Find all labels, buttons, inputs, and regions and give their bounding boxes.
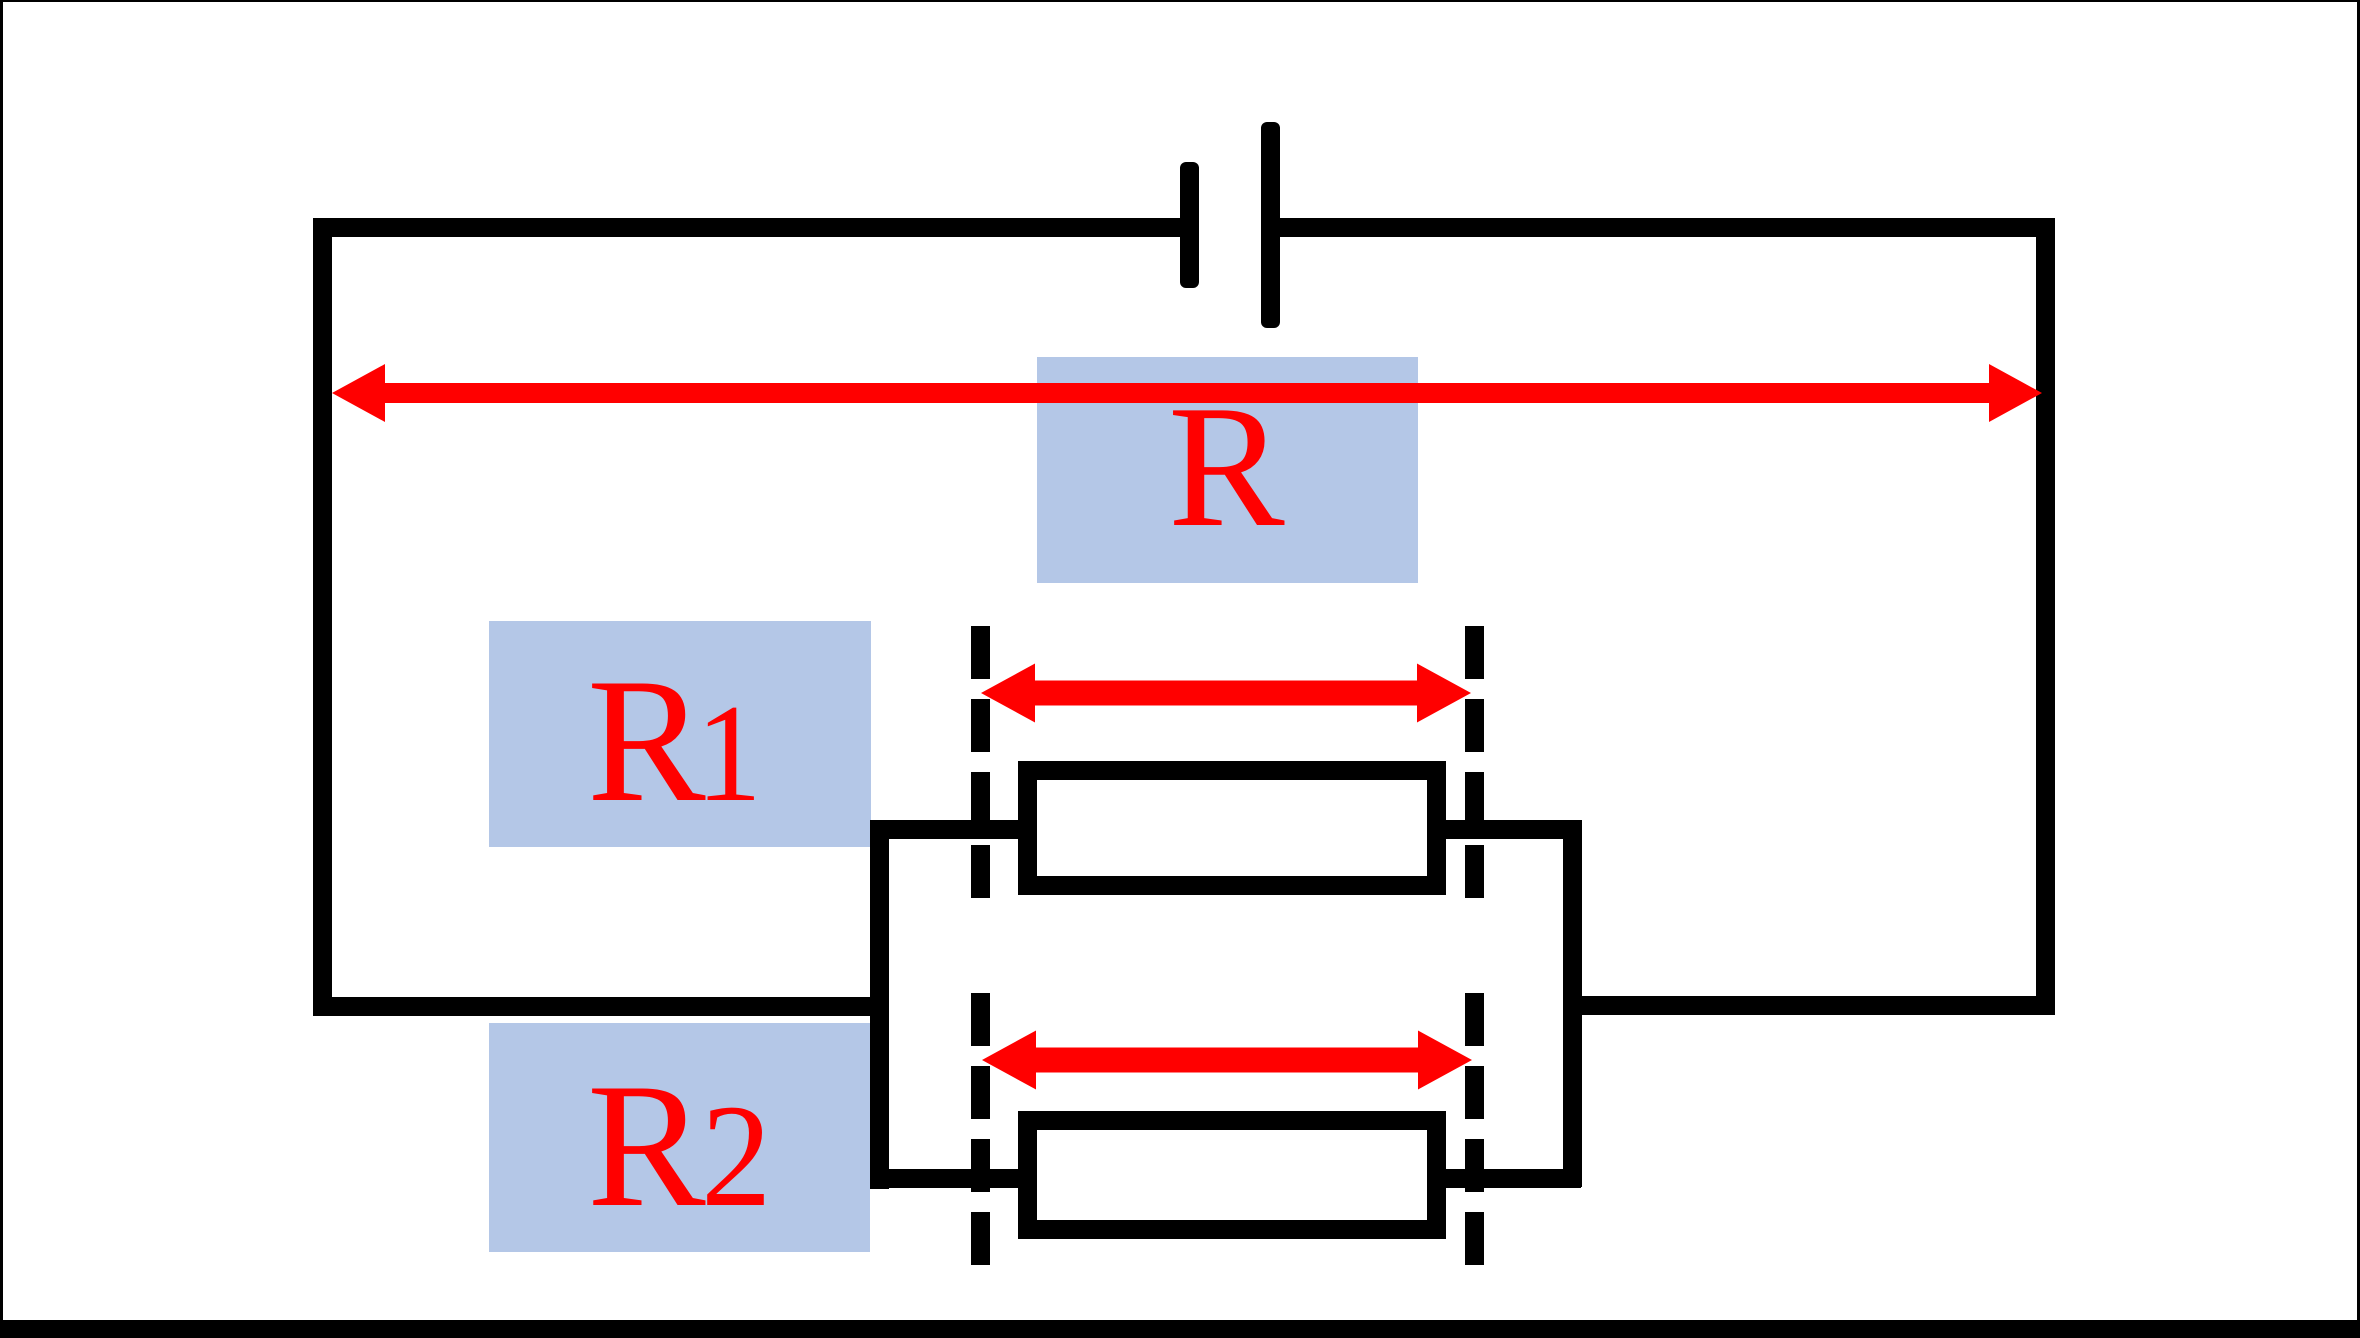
svg-text:R: R [587,641,706,839]
wire: R2 left lead [871,1169,1030,1188]
red arrow R1 [981,664,1471,723]
label box R [1037,357,1418,583]
frame: bottom band [0,1320,2360,1338]
wire: left junction bar [870,820,889,1189]
frame: left border [0,0,3,1338]
wire: R1 left lead [871,820,1030,839]
svg-text:1: 1 [696,676,762,831]
wire: bottom-right horizontal [1564,996,2055,1015]
label box R1 [489,621,871,847]
wire: top-right segment [1280,218,2055,237]
wire: bottom-left horizontal [313,997,888,1016]
svg-text:2: 2 [701,1075,772,1237]
wire: right vertical [2036,218,2055,1015]
battery long plate (positive) [1261,122,1280,328]
wire: right junction bar [1563,820,1582,1187]
wire: top-left segment [313,218,1180,237]
red arrow R (full width) [332,364,2042,422]
label box R2 [489,1023,870,1252]
red arrow R2 [982,1031,1472,1090]
svg-text:R: R [1168,369,1285,563]
frame: right border [2357,0,2360,1338]
wire: R2 right lead [1434,1169,1581,1188]
frame: top border [0,0,2360,2]
battery short plate (negative) [1180,162,1199,288]
wire: R1 right lead [1434,820,1581,839]
wire: left vertical [313,218,332,1016]
resistor R1 body [1028,771,1437,886]
dashed bracket: left column, R2 section [971,993,990,1266]
dashed bracket: right column, R1 section [1465,626,1484,898]
dashed bracket: left column, R1 section [971,626,990,898]
dashed bracket: right column, R2 section [1465,993,1484,1266]
svg-text:R: R [587,1046,706,1244]
resistor R2 body [1028,1121,1437,1230]
